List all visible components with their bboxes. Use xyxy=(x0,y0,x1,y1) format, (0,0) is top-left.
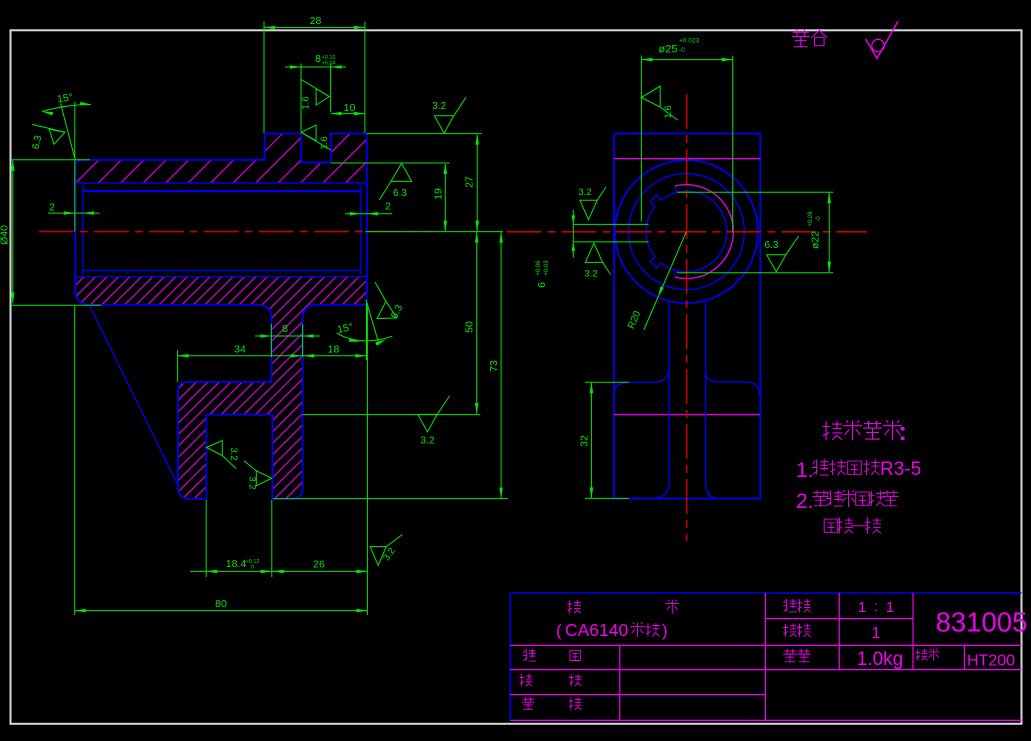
svg-text:6.3: 6.3 xyxy=(393,188,407,199)
R20 leader xyxy=(644,232,687,330)
centerline green extension xyxy=(365,231,503,233)
svg-text:32: 32 xyxy=(579,435,591,447)
svg-text:3.2: 3.2 xyxy=(584,269,597,280)
surface 1.6 lower (notch right flank) xyxy=(301,125,316,141)
dim phi25 top xyxy=(640,56,642,222)
surface 6.3 near phi22 xyxy=(767,255,786,272)
svg-text:3.2: 3.2 xyxy=(432,101,446,112)
svg-text:15°: 15° xyxy=(56,91,73,105)
svg-text:Ø40: Ø40 xyxy=(0,225,11,245)
left view: spline bore lines xyxy=(75,182,367,184)
svg-text:73: 73 xyxy=(488,360,500,372)
surface 1.6 on phi25 xyxy=(641,86,660,97)
dim 50 xyxy=(476,232,478,414)
dim 26 xyxy=(273,570,368,572)
svg-text:2.: 2. xyxy=(796,490,814,513)
surface 3.2 near foot bottom xyxy=(370,547,386,566)
svg-text:6: 6 xyxy=(536,282,548,288)
svg-text:HT200: HT200 xyxy=(967,653,1015,670)
svg-text:18: 18 xyxy=(328,344,340,356)
svg-text:+0.03: +0.03 xyxy=(544,260,550,276)
title block outer blue xyxy=(510,592,1022,594)
surface 3.2 on slot-top extension xyxy=(418,396,450,432)
svg-text:-0: -0 xyxy=(816,216,822,222)
svg-text:8: 8 xyxy=(315,53,321,65)
svg-text:1.: 1. xyxy=(796,459,814,482)
dim 18.4 slot width xyxy=(205,500,207,577)
svg-text:): ) xyxy=(662,621,668,640)
dim 8 stem xyxy=(270,324,272,357)
svg-text:ø22: ø22 xyxy=(810,231,822,249)
dim 15 deg top-left chamfer xyxy=(74,102,76,232)
extension from notch bottom xyxy=(331,162,450,164)
right view: spline bore left arc with grooves xyxy=(646,186,677,277)
title texts xyxy=(568,600,581,613)
dim 28 top xyxy=(263,22,265,134)
svg-text:26: 26 xyxy=(313,559,325,571)
surface 6.3 on notch underside xyxy=(391,163,412,181)
right view: hub outer circle R20 xyxy=(615,160,758,303)
svg-text:1.6: 1.6 xyxy=(319,136,330,149)
dim 6 spline width xyxy=(573,223,648,225)
dim 15 deg lower right chamfer xyxy=(366,303,368,360)
dim 10 xyxy=(331,113,365,115)
left view: fork arm slant edge xyxy=(90,306,178,485)
svg-text:1: 1 xyxy=(858,599,866,616)
surface 3.2 in slot upper xyxy=(207,441,223,456)
svg-text:1.0kg: 1.0kg xyxy=(857,649,903,670)
svg-text:18.4: 18.4 xyxy=(226,558,247,570)
dim phi22 right xyxy=(677,191,833,193)
svg-text:+0.28: +0.28 xyxy=(808,211,814,227)
extension slot top xyxy=(303,414,481,416)
svg-text:1: 1 xyxy=(872,625,881,642)
right view: chamfer circle xyxy=(628,174,744,290)
dim 80 xyxy=(74,306,76,615)
legend qi-yu (rest surfaces) xyxy=(792,30,809,47)
svg-text:R3-5: R3-5 xyxy=(880,459,921,480)
extension foot bottom right xyxy=(273,498,508,500)
svg-text:1.6: 1.6 xyxy=(301,96,312,109)
left view: bore end chamfer verticals xyxy=(82,185,84,275)
dim 2 left chamfer xyxy=(48,212,99,214)
extension from boss top xyxy=(367,133,482,135)
surface 3.2 above xyxy=(580,200,597,219)
right view: magenta face line top xyxy=(614,158,760,160)
svg-text:50: 50 xyxy=(464,321,476,333)
dim 73 xyxy=(500,232,502,499)
surface 6.3 at hub lower-right xyxy=(361,282,407,327)
svg-text::: : xyxy=(874,598,878,614)
surface 6.3 top-left xyxy=(32,124,65,132)
svg-text:-0: -0 xyxy=(679,47,685,54)
svg-text:6.3: 6.3 xyxy=(765,240,779,251)
svg-text:2: 2 xyxy=(385,201,391,213)
surface 3.2 top-right of hub xyxy=(434,97,466,133)
dim 19 xyxy=(444,164,446,232)
svg-text:+0.06: +0.06 xyxy=(536,260,542,276)
dim 2 right chamfer xyxy=(345,213,392,215)
svg-text:80: 80 xyxy=(215,598,227,610)
svg-text:2: 2 xyxy=(49,202,55,214)
svg-text:+0.023: +0.023 xyxy=(679,38,699,45)
svg-text:(: ( xyxy=(556,621,562,640)
svg-text:8: 8 xyxy=(282,323,288,335)
right view: magenta plate line xyxy=(614,414,760,416)
right view: body rectangle xyxy=(614,134,760,499)
svg-text:831005: 831005 xyxy=(936,607,1028,638)
svg-text:3.2: 3.2 xyxy=(228,447,239,460)
dim 32 left of right view xyxy=(585,381,629,383)
svg-text:1: 1 xyxy=(886,599,894,616)
svg-text:28: 28 xyxy=(310,15,322,27)
right view: spline bore right arc xyxy=(677,191,727,272)
right view: spline major magenta arc xyxy=(675,185,733,279)
dim phi40 vertical at left margin xyxy=(12,160,14,303)
svg-text:ø25: ø25 xyxy=(659,44,678,56)
svg-text:3.2: 3.2 xyxy=(421,435,435,446)
title block magenta grid xyxy=(510,644,1021,646)
dim 34 xyxy=(177,350,179,382)
surface 1.6 upper (notch left flank) xyxy=(301,79,329,96)
dim 8 notch top xyxy=(300,64,302,132)
dim 27 xyxy=(476,135,478,232)
left view: hub section hatch top band xyxy=(75,134,367,183)
right view: web rib right xyxy=(706,301,718,499)
right view: web rib left xyxy=(653,301,669,498)
svg-text:34: 34 xyxy=(234,344,246,356)
technical requirements text xyxy=(823,421,842,439)
right view: red centerlines xyxy=(686,94,688,541)
surface 3.2 in slot lower xyxy=(256,471,271,486)
svg-text:27: 27 xyxy=(464,176,476,188)
svg-text:1.6: 1.6 xyxy=(663,105,674,118)
svg-text:3.2: 3.2 xyxy=(578,187,591,198)
svg-text:0: 0 xyxy=(251,565,254,571)
svg-text:CA6140: CA6140 xyxy=(565,620,629,640)
svg-text:3.2: 3.2 xyxy=(247,476,258,489)
surface 3.2 below xyxy=(585,243,602,262)
left view: part outline xyxy=(75,134,367,499)
svg-text:10: 10 xyxy=(344,102,356,114)
dim 18 xyxy=(303,355,366,357)
svg-text:+0.04: +0.04 xyxy=(322,61,336,67)
left view: lower section hatch (band+stem+foot) xyxy=(75,277,367,499)
left view: red centerline xyxy=(39,231,434,233)
svg-text:19: 19 xyxy=(433,188,445,200)
